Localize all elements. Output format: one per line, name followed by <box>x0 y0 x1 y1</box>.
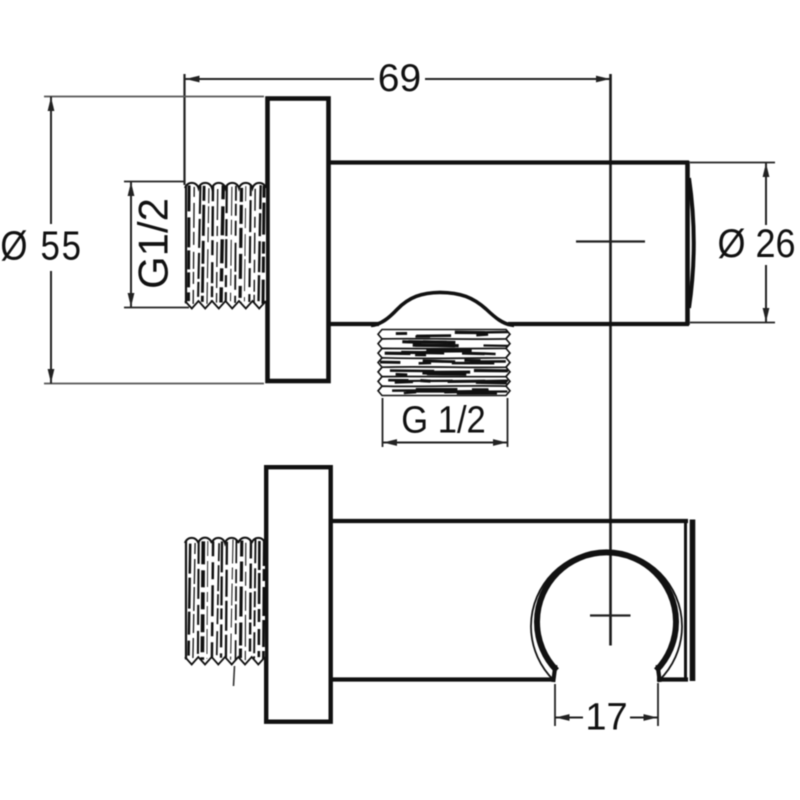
body cylinder (top view) <box>330 161 694 325</box>
dimension G 1/2 (outlet) <box>383 398 508 447</box>
dimension diameter 55 vertical <box>0 97 264 384</box>
dimension G1/2 rotated (left nipple) <box>124 182 189 308</box>
dimension diameter 26 vertical (right) <box>690 163 799 323</box>
svg-text:Ø 55: Ø 55 <box>0 224 82 269</box>
dimension 69 horizontal <box>185 57 610 100</box>
body cylinder (lower view) <box>332 520 693 682</box>
wall plate (top view) <box>268 99 329 382</box>
svg-text:69: 69 <box>378 57 421 100</box>
extension line left of 69 dimension <box>183 74 185 185</box>
holder mouth lips <box>553 665 660 682</box>
stray leader line below lower nipple <box>234 666 235 686</box>
svg-text:G1/2: G1/2 <box>130 198 177 289</box>
svg-text:G 1/2: G 1/2 <box>401 398 486 441</box>
outlet hump (top view) <box>371 292 514 325</box>
hand shower holder C-ring outer arc <box>531 551 682 681</box>
hand shower holder C-ring inner thick arc <box>537 552 676 670</box>
long vertical reference line through holder centre <box>609 74 612 646</box>
svg-text:17: 17 <box>585 697 627 739</box>
centre mark of body (top view) <box>576 240 645 242</box>
centre mark of holder <box>590 614 631 616</box>
dimension 17 (holder mouth) <box>555 683 658 739</box>
wall plate (lower view) <box>266 467 331 722</box>
svg-text:Ø 26: Ø 26 <box>717 222 795 266</box>
